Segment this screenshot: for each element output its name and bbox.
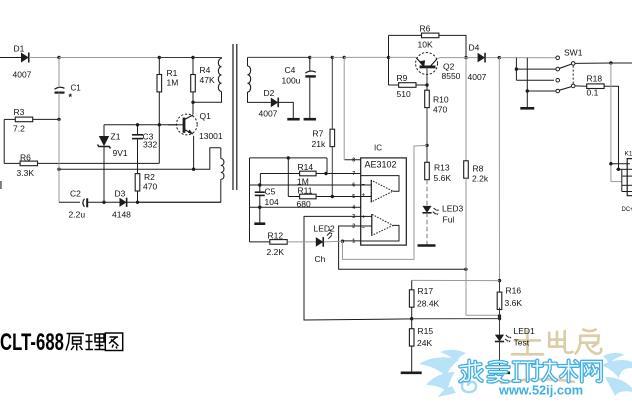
- svg-text:7.2: 7.2: [13, 124, 25, 134]
- node junction Q2 base/R9/R10: [425, 83, 428, 86]
- watermark left wing: [419, 350, 466, 397]
- ground D2: [287, 118, 299, 121]
- capacitor C5 104: [259, 185, 261, 192]
- wire LED2 cathode to pin1 node: [324, 240, 343, 243]
- node junction R10 bottom / R13 / pin1 loop: [425, 144, 428, 147]
- resistor R6 10K: [389, 34, 422, 36]
- transformer secondary winding: [247, 57, 249, 66]
- ground C5/pin4: [254, 222, 265, 225]
- switch SW1 contact row4: [556, 89, 560, 93]
- switch SW1 contact row3: [556, 78, 560, 82]
- transistor Q1: [176, 114, 197, 135]
- resistor R7 21k: [331, 57, 333, 129]
- diode D1: [21, 53, 29, 63]
- transformer feedback winding: [220, 148, 222, 159]
- wire R14-R11 left vertical: [287, 158, 289, 197]
- edge artifact: [0, 181, 2, 189]
- watermark right wing: [602, 353, 632, 396]
- IC pin7 stub: [327, 173, 361, 175]
- wire D3 to feedback winding bottom: [127, 201, 221, 203]
- svg-text:R16: R16: [506, 286, 522, 296]
- node junction SW1 row2: [515, 67, 518, 70]
- connector K1 inner lines: [622, 175, 632, 177]
- node junction R17 row: [498, 279, 501, 282]
- transformer core: [232, 44, 234, 190]
- svg-text:13001: 13001: [199, 131, 223, 141]
- svg-text:C4: C4: [285, 65, 296, 75]
- svg-text:R9: R9: [397, 73, 408, 83]
- node junction K1 pin A: [609, 162, 612, 165]
- switch SW1 contact row2: [556, 67, 560, 71]
- svg-text:IC: IC: [374, 144, 382, 153]
- svg-text:C2: C2: [70, 189, 81, 199]
- svg-text:C5: C5: [265, 187, 276, 197]
- resistor R1 1M: [158, 58, 160, 75]
- wire Q1 collector: [192, 102, 194, 114]
- ground LED1: [489, 371, 510, 374]
- IC pin2 row: [339, 226, 466, 269]
- svg-text:Test: Test: [514, 338, 530, 348]
- node junction emitter row left: [57, 168, 60, 171]
- watermark tan swoosh: [500, 379, 575, 383]
- wire emitter to feedback winding top: [194, 148, 221, 169]
- node junction emitter row right: [192, 168, 195, 171]
- wire Q2 collector to D4 node: [437, 58, 440, 59]
- svg-text:3.6K: 3.6K: [505, 298, 523, 308]
- svg-text:LED2: LED2: [314, 224, 336, 234]
- svg-text:4148: 4148: [112, 210, 131, 220]
- svg-text:680: 680: [297, 199, 311, 209]
- IC pin3 row: [304, 216, 412, 320]
- switch SW1 pole lower: [571, 84, 575, 88]
- IC pin8 stub: [345, 159, 361, 161]
- svg-text:D2: D2: [264, 88, 275, 98]
- svg-text:R12: R12: [268, 231, 284, 241]
- capacitor C2: [83, 199, 85, 207]
- resistor R14 1M: [260, 173, 299, 175]
- svg-text:2.2K: 2.2K: [267, 247, 285, 257]
- svg-text:21k: 21k: [312, 139, 326, 149]
- wire LED1 top: [499, 319, 501, 335]
- wire top loop corner down to pin7: [326, 158, 328, 174]
- node junction LED1 column top: [498, 56, 501, 59]
- svg-text:SW1: SW1: [564, 48, 583, 58]
- svg-text:R1: R1: [167, 68, 178, 78]
- wire LED3 to ground: [426, 213, 428, 245]
- wire R6 row up to base node: [158, 125, 160, 164]
- svg-text:Q1: Q1: [200, 111, 212, 121]
- node junction ground stem on pin4 row: [258, 206, 261, 209]
- watermark tan char 2: [549, 331, 572, 353]
- capacitor C1: [55, 87, 65, 89]
- wire C1 column lower: [58, 93, 60, 120]
- svg-text:510: 510: [397, 89, 411, 99]
- svg-text:www.52ij.com: www.52ij.com: [498, 383, 583, 398]
- svg-text:1M: 1M: [167, 78, 179, 88]
- svg-text:470: 470: [433, 105, 447, 115]
- node junction C4 top: [308, 56, 311, 59]
- node junction R14 right: [324, 172, 327, 175]
- wire SW1 row3 feed: [516, 79, 554, 81]
- capacitor C4 100u: [305, 71, 316, 73]
- wire R6 left vertical: [388, 35, 390, 57]
- svg-text:DC+: DC+: [622, 207, 632, 213]
- svg-text:104: 104: [265, 197, 279, 207]
- svg-text:Ch: Ch: [315, 254, 326, 264]
- wire top loop row: [250, 157, 328, 159]
- wire C1 column upper: [58, 58, 60, 88]
- svg-text:24K: 24K: [417, 338, 432, 348]
- diode D2: [271, 98, 278, 108]
- switch SW1 pole upper: [571, 62, 575, 66]
- wire R17 top row: [412, 279, 500, 281]
- switch SW1 contact row1: [556, 56, 560, 60]
- svg-text:C1: C1: [71, 84, 82, 93]
- node junction R1 bottom / base: [158, 123, 161, 126]
- switch SW1 gang link: [572, 66, 574, 84]
- op-amp U1B: [372, 214, 393, 235]
- node junction Q1 collector: [191, 101, 194, 104]
- wire left vertical R3 to R6: [3, 119, 5, 163]
- svg-text:R17: R17: [418, 286, 434, 296]
- connector K1 pin A stub: [611, 163, 630, 165]
- wire D4 to switch node: [486, 57, 500, 59]
- svg-text:R18: R18: [587, 74, 603, 84]
- diode D4: [478, 53, 485, 63]
- resistor R10 470: [426, 85, 428, 90]
- svg-text:3.3K: 3.3K: [17, 168, 35, 178]
- IC pin6 row: [250, 184, 361, 186]
- resistor R13 5.6K: [425, 162, 430, 179]
- wire D2 cathode down to ground: [278, 102, 293, 119]
- svg-text:R10: R10: [433, 95, 449, 105]
- resistor R17 28.4K: [411, 280, 413, 290]
- transformer primary winding: [221, 58, 223, 59]
- node junction IC pin8 drop: [343, 56, 346, 59]
- title CJK yuan-li-tu: [66, 334, 84, 351]
- svg-text:R14: R14: [298, 162, 314, 172]
- svg-text:+: +: [362, 215, 365, 221]
- wire SW1 row4 feed: [527, 90, 556, 92]
- zener diode Z1: [103, 125, 105, 136]
- node junction C5 top on pin6 row: [258, 183, 261, 186]
- node junction R7 bottom on pin5 row: [331, 195, 334, 198]
- svg-text:R3: R3: [14, 107, 25, 117]
- wire R6-R9 vertical lower: [388, 57, 390, 85]
- wire IC pin8 to rail: [343, 57, 345, 159]
- LED2: [316, 237, 323, 247]
- svg-text:4007: 4007: [468, 72, 487, 82]
- transistor Q2: [416, 53, 438, 75]
- wire SW1 row2 feed: [516, 68, 556, 70]
- svg-text:R13: R13: [434, 163, 450, 173]
- wire C2 to D3: [87, 201, 119, 203]
- svg-text:+: +: [362, 193, 365, 199]
- node junction output/K1 vertical: [609, 61, 612, 64]
- svg-text:2: 2: [352, 224, 355, 230]
- wire SW1 output lower to R18: [575, 85, 587, 87]
- svg-text:4007: 4007: [259, 109, 278, 119]
- svg-text:K1: K1: [625, 151, 632, 158]
- svg-text:R6: R6: [20, 153, 31, 163]
- node junction Z1 bottom: [102, 201, 105, 204]
- node junction R8 path at LED1 column: [498, 314, 501, 317]
- resistor R16 3.6K: [499, 281, 501, 295]
- connector K1 box: [627, 159, 632, 196]
- node junction K1 pin B: [617, 168, 620, 171]
- svg-text:R6: R6: [420, 24, 431, 34]
- svg-text:2.2u: 2.2u: [69, 210, 86, 220]
- svg-text:4: 4: [352, 205, 355, 211]
- svg-text:R4: R4: [200, 65, 211, 75]
- node junction Q2 collector rail: [464, 56, 467, 59]
- switch SW1 blade lower: [560, 87, 572, 91]
- node junction R8 bottom: [464, 268, 467, 271]
- svg-text:D1: D1: [14, 44, 25, 54]
- svg-text:470: 470: [143, 182, 157, 192]
- svg-text:*: *: [69, 92, 73, 102]
- svg-text:5.6K: 5.6K: [434, 173, 452, 183]
- svg-text:CLT-688: CLT-688: [0, 329, 64, 356]
- LED1: [495, 335, 504, 342]
- svg-text:5: 5: [352, 194, 355, 200]
- node junction R16 bottom / R15 row: [498, 317, 501, 320]
- wire K1 vertical from output: [610, 63, 612, 164]
- svg-text:8: 8: [352, 157, 355, 163]
- capacitor C3: [137, 125, 139, 135]
- node junction R1 top: [158, 56, 161, 59]
- svg-text:2.2k: 2.2k: [472, 174, 489, 184]
- wire emitter row: [59, 168, 194, 170]
- wire pin1 loop under IC: [343, 145, 428, 259]
- resistor R12 2.2K: [250, 241, 270, 243]
- switch SW1 blade upper: [560, 64, 572, 68]
- wire R13 top: [426, 145, 428, 162]
- wire rail to Q2 emitter: [389, 56, 417, 58]
- node junction R6-R9 vertical: [387, 56, 390, 59]
- svg-text:R11: R11: [298, 186, 313, 196]
- wire C1 column to C2 row: [58, 119, 60, 169]
- svg-text:R8: R8: [473, 164, 484, 174]
- wire rail R7 to pin8 drop: [332, 56, 344, 58]
- wire Q1 base row: [104, 124, 178, 126]
- connector K1 pin B stub: [616, 168, 632, 170]
- svg-text:9V1: 9V1: [113, 148, 128, 158]
- svg-text:R2: R2: [144, 172, 155, 182]
- IC pin5 row: [332, 196, 360, 198]
- svg-text:LED1: LED1: [514, 326, 536, 336]
- resistor R8 2.2k: [465, 58, 467, 161]
- wire C2 row left: [59, 201, 80, 203]
- wire LED1 to ground: [499, 342, 501, 373]
- wire AC input to D1 anode: [0, 57, 21, 59]
- svg-text:100u: 100u: [282, 76, 301, 86]
- svg-text:Q2: Q2: [443, 62, 455, 72]
- node junction top loop / R14-R11 vertical: [287, 156, 290, 159]
- resistor R3: [4, 118, 15, 120]
- svg-text:7: 7: [352, 171, 355, 177]
- svg-text:0.1: 0.1: [587, 88, 599, 98]
- node junction R4 top: [191, 56, 194, 59]
- wire SW1 ground vertical: [526, 58, 528, 108]
- wire Q2 base down: [426, 67, 428, 85]
- wire R8 bottom to LED1 column: [466, 269, 500, 315]
- watermark tan char 1: [512, 331, 543, 354]
- svg-text:R7: R7: [313, 129, 324, 139]
- IC AE3102 box: [361, 158, 407, 245]
- wire rail R4 to transformer primary top: [193, 57, 222, 59]
- svg-text:AE3102: AE3102: [365, 160, 397, 170]
- wire rail C4 to R7: [310, 56, 333, 58]
- node junction D1/C1: [57, 56, 60, 59]
- svg-text:D4: D4: [469, 43, 480, 53]
- svg-text:332: 332: [143, 140, 157, 150]
- svg-text:LED3: LED3: [442, 204, 464, 214]
- ground R15: [401, 371, 422, 374]
- node junction C3 top: [136, 123, 139, 126]
- diode D3: [120, 198, 127, 207]
- node junction SW1 row4: [526, 89, 529, 92]
- wire rail R1 to R4: [159, 57, 193, 59]
- IC pin4 row: [250, 206, 361, 208]
- resistor R4 47K: [192, 58, 194, 75]
- svg-text:D3: D3: [115, 189, 126, 199]
- IC pin1 row: [343, 240, 361, 242]
- svg-text:6: 6: [352, 183, 355, 189]
- resistor R2 470: [135, 174, 140, 191]
- svg-text:Ful: Ful: [443, 215, 455, 225]
- resistor R11 680: [300, 194, 317, 199]
- ground LED3: [418, 244, 436, 247]
- resistor R6 3.3K: [4, 162, 20, 164]
- node junction R2 bottom: [136, 201, 139, 204]
- svg-text:4007: 4007: [13, 70, 32, 80]
- ground SW1: [520, 107, 534, 110]
- resistor R9 510: [389, 84, 399, 86]
- resistor R15 24K: [411, 319, 413, 329]
- wire rail to R6/R9 vertical: [344, 56, 388, 58]
- svg-text:28.4K: 28.4K: [417, 299, 440, 309]
- wire LED1 column upper: [498, 58, 500, 281]
- watermark swirl: [462, 380, 476, 392]
- LED3: [422, 206, 431, 213]
- svg-text:Z1: Z1: [111, 132, 121, 142]
- wire C1 node to R1 top rail: [59, 57, 159, 59]
- svg-text:10K: 10K: [418, 40, 433, 50]
- wire switch feed: [499, 57, 555, 59]
- wire C5 ground stem: [259, 207, 261, 224]
- wire D1 to C1 node: [36, 57, 59, 59]
- watermark tan char 3: [576, 330, 602, 354]
- wire R14 left drop to pin6: [259, 174, 261, 186]
- node junction pin1/LED2: [341, 240, 344, 243]
- wire SW1 output upper: [575, 62, 611, 64]
- ground C4: [304, 118, 316, 121]
- wire Q1 emitter: [193, 136, 195, 169]
- wire secondary top rail: [248, 56, 310, 58]
- node junction R17/R15: [410, 317, 413, 320]
- node junction R7 top: [331, 56, 334, 59]
- op-amp U1A: [371, 180, 393, 202]
- wire SW1 common vertical: [515, 58, 517, 80]
- wire output to edge: [611, 62, 632, 64]
- svg-text:47K: 47K: [200, 75, 215, 85]
- wire left loop vertical: [249, 158, 251, 242]
- resistor R18 0.1: [587, 84, 604, 89]
- watermark main text: [460, 361, 482, 382]
- wire R15 row to LED1 column: [412, 318, 500, 320]
- node junction R3/C1 column: [57, 118, 60, 121]
- svg-text:R15: R15: [418, 326, 434, 336]
- svg-text:3: 3: [352, 214, 355, 220]
- svg-text:8550: 8550: [442, 71, 461, 81]
